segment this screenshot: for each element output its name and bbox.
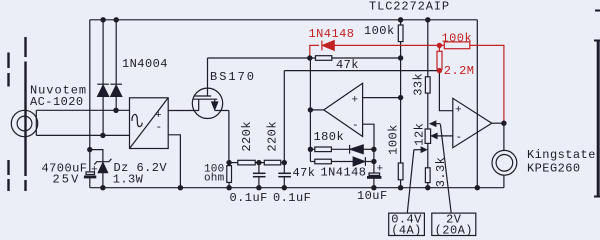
rail to opamp2 plus input (284, 70, 439, 72)
svg-text:+: + (377, 164, 384, 176)
potentiometer 12k (427, 93, 429, 129)
svg-text:100k: 100k (387, 124, 401, 155)
svg-text:Kingstate: Kingstate (527, 148, 596, 162)
svg-text:33k: 33k (411, 73, 425, 96)
op-amp U1A TLC2272 (324, 83, 363, 136)
svg-text:+: + (352, 95, 359, 107)
svg-text:100k: 100k (442, 32, 473, 46)
diode D2 1N4004 (115, 20, 117, 84)
resistor 100 ohm (227, 166, 232, 183)
resistor 220k no.1 (238, 160, 255, 165)
wire x284 vertical to opamp2 plus node rail (283, 71, 285, 163)
wire opamp2 plus input (439, 71, 452, 111)
arrow tap bottom (0.4V setting) (414, 149, 422, 151)
red wire from gate node up (310, 45, 319, 58)
svg-text:2.2M: 2.2M (444, 64, 475, 78)
diode 1N4148 row2 (points right) (353, 157, 365, 166)
svg-text:47k: 47k (336, 58, 359, 72)
resistor 2.2M red (438, 45, 440, 51)
resistor chain 33k (427, 20, 429, 77)
resistor 47k (in gate rail) (316, 56, 332, 61)
wire cap to zener (90, 150, 103, 162)
wire mosfet source to 100ohm (215, 110, 229, 112)
option box 0.4V 4A (389, 213, 425, 235)
svg-text:(4A): (4A) (391, 223, 422, 237)
wire bridge minus output (168, 135, 180, 188)
svg-text:12k: 12k (412, 123, 426, 146)
svg-text:0.1uF: 0.1uF (273, 191, 311, 205)
diode 1N4148 red (points left) (321, 41, 323, 51)
supply drop wire right (476, 20, 478, 188)
svg-text:1N4148: 1N4148 (321, 166, 367, 180)
wire 100k node vertical (400, 58, 402, 163)
mid wire (mosfet source node) (229, 162, 238, 164)
svg-text:1.3W: 1.3W (113, 173, 144, 187)
svg-text:-: - (156, 122, 163, 134)
resistor 100k top (398, 25, 403, 42)
capacitor 10uF (373, 149, 375, 173)
bridge rectifier B1 (130, 98, 169, 149)
resistor 3.3k (427, 143, 429, 167)
svg-text:220k: 220k (265, 121, 279, 152)
svg-text:0.1uF: 0.1uF (230, 191, 268, 205)
svg-text:47k: 47k (293, 166, 316, 180)
mains line (live wire, dashed ends) (24, 37, 26, 191)
wire opamp2 output (492, 122, 504, 124)
svg-text:BS170: BS170 (210, 70, 256, 84)
arrow wiper (minus input of opamp2) (437, 135, 453, 137)
svg-text:-: - (456, 132, 463, 144)
bottom rail wire (ground return) (90, 187, 504, 189)
capacitor 0.1uF no.1 (258, 163, 260, 174)
op-amp U1B TLC2272 (453, 98, 492, 147)
svg-text:180k: 180k (314, 130, 345, 144)
svg-text:10uF: 10uF (357, 189, 388, 203)
wire opamp1 plus input (363, 97, 401, 99)
svg-text:+: + (455, 105, 462, 117)
AC plug connector (11, 110, 37, 136)
slant wire to 0.4V box (407, 150, 414, 213)
option box 2V 20A (432, 213, 476, 235)
resistor 220k no.2 (264, 160, 281, 165)
svg-text:AC-1020: AC-1020 (30, 95, 84, 109)
zener diode Dz 6.2V (94, 159, 111, 165)
svg-text:1N4004: 1N4004 (122, 57, 168, 71)
resistor 180k (feedback row1) (310, 148, 314, 150)
svg-text:+: + (91, 164, 98, 176)
svg-text:3.3k: 3.3k (434, 157, 448, 188)
transistor Q1 BS170 (192, 88, 222, 118)
red junction dots (437, 43, 442, 74)
red wire to opamp2 output (470, 45, 504, 123)
resistor 100k red (444, 42, 470, 49)
wire opamp1 minus input (363, 124, 374, 149)
transformer T1 secondary wires (36, 109, 129, 111)
diode D1 1N4004 (102, 20, 104, 84)
svg-text:KPEG260: KPEG260 (527, 162, 581, 176)
wire output node vertical (309, 58, 311, 162)
arrow tap top (2V setting) (436, 123, 441, 125)
svg-text:25V: 25V (53, 173, 81, 187)
cropped element at right edge (594, 11, 600, 198)
red wire to 100k (334, 44, 444, 46)
gate rail wire (208, 57, 316, 59)
svg-text:(20A): (20A) (435, 223, 473, 237)
red feedback network (310, 41, 504, 124)
top rail wire (90, 19, 478, 21)
svg-text:+: + (155, 110, 162, 122)
svg-text:-: - (352, 120, 359, 132)
capacitor 0.1uF no.2 (283, 163, 285, 174)
speaker Kingstate KPEG260 (492, 150, 517, 175)
slant wire to 2V box (440, 124, 451, 213)
wire bridge plus output (168, 110, 199, 112)
resistor 100k bottom (398, 163, 403, 180)
wire opamp1 output (310, 109, 323, 111)
capacitor C1 4700uF 25V (89, 20, 91, 171)
wire output to speaker (503, 123, 505, 151)
svg-text:TLC2272AIP: TLC2272AIP (369, 0, 450, 14)
svg-text:220k: 220k (240, 121, 254, 152)
resistor 47k (feedback row2) (310, 161, 314, 163)
svg-text:100k: 100k (364, 24, 395, 38)
mains dashed wall line left (7, 53, 9, 192)
svg-text:ohm: ohm (204, 173, 225, 185)
svg-text:1N4148: 1N4148 (309, 27, 355, 41)
diode 1N4148 row1 (points left) (349, 145, 351, 154)
